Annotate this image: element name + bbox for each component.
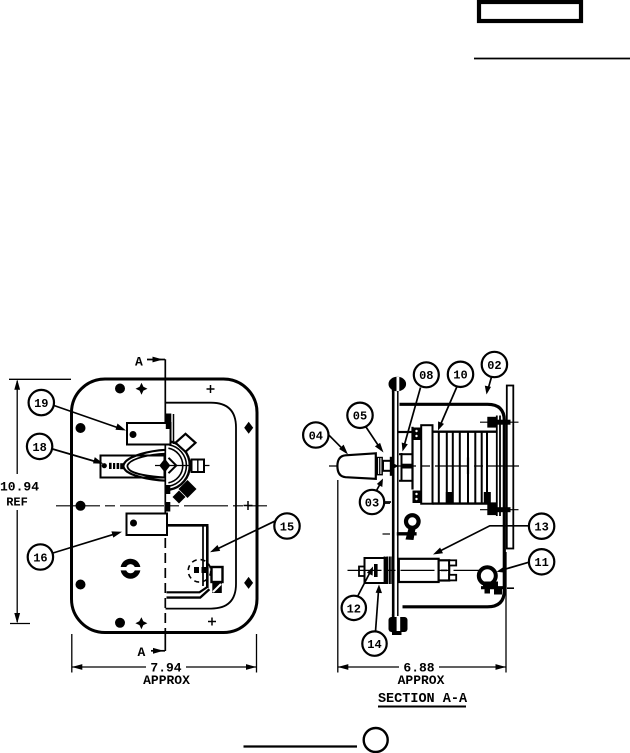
svg-text:02: 02 [487, 359, 501, 373]
panel holes (filled dots) [76, 384, 126, 628]
section arrow A bottom [138, 645, 166, 660]
cylinder (item 13) [399, 559, 456, 582]
svg-text:10.94: 10.94 [0, 480, 39, 495]
acorn nut top of plate [389, 377, 407, 392]
panel outer outline [72, 379, 258, 633]
leader 14 [376, 585, 383, 632]
svg-text:11: 11 [534, 556, 548, 570]
svg-text:APPROX: APPROX [143, 673, 190, 688]
flange bolt upper left [413, 428, 422, 441]
housing outline [400, 404, 505, 607]
cross marker top right [207, 385, 215, 393]
svg-text:03: 03 [365, 496, 379, 510]
leader 05 [366, 427, 384, 453]
svg-text:08: 08 [419, 369, 433, 383]
balloon 14 [362, 631, 386, 655]
spring center mark [467, 458, 469, 475]
balloon 16 [28, 544, 53, 569]
balloon 18 [27, 434, 52, 459]
shaft centerline [329, 465, 519, 467]
edge diamond top right [244, 422, 253, 434]
svg-text:A: A [135, 355, 143, 370]
balloon 19 [29, 390, 54, 415]
eye bolt mid plate [383, 503, 419, 540]
spring right flange plates [497, 416, 500, 517]
cross marker right centerline [244, 501, 253, 510]
svg-text:18: 18 [32, 441, 46, 455]
keeper plate [167, 525, 210, 597]
balloon 03 [360, 490, 384, 514]
svg-text:10: 10 [453, 369, 467, 383]
dimension 6.88 APPROX [338, 480, 506, 688]
balloon 15 [274, 513, 299, 538]
balloon 02 [482, 352, 507, 377]
svg-text:04: 04 [309, 429, 323, 443]
pivot diamond [155, 458, 210, 473]
title block rectangle top right [479, 2, 581, 21]
dashed circle marker [188, 560, 211, 583]
balloon 05 [347, 403, 372, 428]
wall bolt upper right [480, 417, 519, 428]
balloon 11 [529, 549, 554, 574]
panel inner outline (right half) [166, 403, 237, 609]
shaft nut (item 05) [376, 457, 392, 476]
hook clip (item 11) [479, 567, 514, 594]
balloon 12 [342, 596, 366, 620]
wall bolt lower right [480, 504, 519, 515]
leader 16 [53, 531, 122, 553]
cam diamond filled lower [173, 480, 197, 504]
svg-text:REF: REF [6, 496, 28, 510]
cross marker bottom right [208, 618, 216, 626]
handle teardrop [123, 450, 166, 481]
cam diamond outline upper [176, 434, 196, 452]
bracket plate upper (item 19) [127, 414, 174, 445]
horizontal rule line top right [474, 58, 630, 60]
svg-text:14: 14 [367, 638, 381, 652]
svg-text:15: 15 [280, 520, 294, 534]
thread nut stack (item 14) [385, 557, 393, 585]
leader 12 [357, 567, 373, 598]
washer at plate [390, 457, 393, 476]
svg-text:12: 12 [347, 602, 361, 616]
svg-text:05: 05 [353, 410, 367, 424]
svg-text:SECTION A-A: SECTION A-A [378, 692, 468, 707]
spring bellows (item 10) [433, 432, 497, 504]
star marker bottom left [135, 617, 147, 629]
section edge fills middle [166, 485, 171, 512]
handle label marks [102, 463, 124, 469]
panel horizontal centerline [56, 505, 267, 507]
cam arcs [168, 441, 189, 489]
clevis bracket behind plate [394, 427, 413, 490]
mounting panel plate vertical [393, 381, 398, 634]
svg-text:16: 16 [33, 551, 47, 565]
plate bottom bolt [389, 614, 408, 635]
svg-text:13: 13 [534, 521, 548, 535]
rear plate (item 02) [507, 386, 514, 549]
svg-text:A: A [138, 645, 146, 660]
leader 11 [497, 562, 530, 573]
section arrow A top [135, 355, 165, 370]
leader 15 [210, 521, 276, 553]
svg-text:APPROX: APPROX [398, 673, 445, 688]
leader 18 [53, 449, 104, 464]
leader 10 [438, 387, 457, 431]
section title SECTION A-A [378, 692, 468, 707]
section edge fill top [166, 414, 172, 430]
leader 02 [485, 377, 492, 395]
star marker top left [136, 383, 148, 395]
svg-text:19: 19 [34, 397, 48, 411]
edge diamond bottom right [244, 577, 253, 589]
dimension 7.94 APPROX [72, 634, 257, 688]
shaft square [192, 460, 205, 473]
spring left flange [421, 425, 432, 504]
leader 19 [54, 406, 126, 431]
flange bolt lower left [413, 491, 422, 504]
leader 04 [328, 434, 348, 454]
rod end nut left (item 12 area) [359, 558, 386, 583]
knob cone (item 04) [337, 453, 375, 479]
balloon 13 [529, 514, 554, 539]
leader 03 [377, 479, 392, 503]
bracket plate lower (item 16) [127, 514, 168, 536]
bottom leader stub line and circle [244, 728, 388, 752]
bellows interior bottom bolts [446, 492, 491, 503]
keeper clip bracket [212, 567, 223, 593]
handle grip plate [101, 456, 165, 478]
leader 13 [433, 526, 529, 555]
section cut line A-A vertical [164, 359, 166, 651]
dimension 10.94 REF [0, 379, 71, 623]
leader 08 [402, 388, 421, 452]
screw head [121, 559, 141, 579]
balloon 10 [448, 362, 473, 387]
balloon 08 [414, 362, 439, 387]
cylinder centerline [348, 569, 481, 571]
balloon 04 [303, 422, 328, 447]
